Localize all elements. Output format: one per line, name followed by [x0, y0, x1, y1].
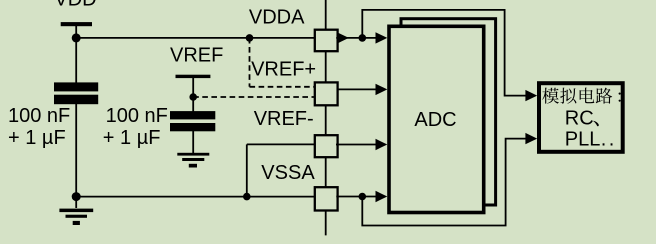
arrow into ADC (VREF-): [376, 139, 388, 150]
ground GND1: [59, 209, 93, 225]
wire VDD to VDDA pin: [76, 37, 314, 39]
svg-text:VREF: VREF: [170, 45, 223, 67]
wire VSSA horizontal: [76, 196, 314, 198]
arrow into analog box (bottom): [525, 133, 537, 144]
arrow into ADC (VSSA): [376, 191, 388, 202]
arrow VDDA pin output: [337, 32, 349, 43]
node VDDA dot at x249.5: [246, 34, 254, 42]
svg-text:ADC: ADC: [414, 109, 456, 131]
capacitor C2 100nF+1uF: [170, 111, 215, 119]
label line1 CJK 模拟电路：: [542, 88, 620, 104]
wire pin column: [325, 0, 327, 235]
wire VREF- to ADC: [336, 144, 376, 146]
wire VDDA top route to analog box: [362, 10, 526, 96]
analog circuit box: [539, 83, 623, 152]
arrow into analog box (top): [525, 90, 537, 101]
ADC U1 front rectangle: [389, 26, 484, 212]
node VREF junction dot: [189, 93, 197, 101]
pin VSSA: [315, 187, 338, 210]
VDD power bar: [61, 22, 92, 26]
svg-text:VSSA: VSSA: [261, 162, 315, 184]
wire VREF vertical: [192, 78, 194, 112]
svg-text:.: .: [601, 129, 607, 151]
arrow into ADC (VDDA): [376, 32, 388, 43]
pin VREF+: [315, 82, 338, 105]
svg-text:VDDA: VDDA: [249, 7, 305, 29]
node VREF-/VSSA junction dot: [243, 193, 251, 201]
svg-text:+ 1 µF: + 1 µF: [8, 127, 66, 149]
wire VREF- horizontal: [247, 143, 315, 145]
svg-text:RC: RC: [565, 108, 594, 130]
wire C2 to ground: [192, 131, 194, 154]
svg-text:+ 1 µF: + 1 µF: [103, 127, 161, 149]
dashed wire VDDA to VREF+ (vertical): [249, 38, 251, 87]
dashed wire VDDA to VREF+ (horizontal): [250, 86, 315, 88]
label line2 RC、: [565, 108, 599, 130]
wire VREF- down to VSSA: [246, 144, 248, 196]
svg-text:VDD: VDD: [54, 0, 96, 11]
svg-text:100 nF: 100 nF: [106, 105, 168, 127]
node VSSA junction dot left: [72, 192, 81, 201]
ground GND2: [177, 153, 209, 168]
wire VREF+ to ADC: [337, 88, 376, 90]
arrow into ADC (VREF+): [376, 84, 388, 95]
dashed wire VREF to VREF+ pin: [193, 96, 314, 98]
pin VDDA: [315, 30, 338, 52]
svg-text:.: .: [609, 129, 615, 151]
pin VREF-: [315, 135, 338, 157]
node VDDA right junction dot: [359, 34, 367, 42]
svg-text:VREF-: VREF-: [254, 108, 314, 130]
ADC back rectangle: [401, 19, 496, 205]
svg-text:PLL: PLL: [565, 129, 601, 151]
wire VDDA pin to ADC: [336, 37, 376, 39]
svg-text:VREF+: VREF+: [251, 59, 316, 81]
wire VSSA to ADC: [336, 196, 376, 198]
node VDD junction dot: [72, 33, 81, 42]
capacitor C1 100nF+1uF: [54, 82, 98, 91]
VREF power bar: [176, 75, 211, 78]
wire VDD vertical: [75, 26, 77, 83]
svg-text:100 nF: 100 nF: [8, 105, 70, 127]
node VSSA right junction dot: [359, 193, 367, 201]
wire C1 to ground: [75, 104, 77, 208]
wire VSSA bottom route to analog box: [362, 139, 526, 226]
